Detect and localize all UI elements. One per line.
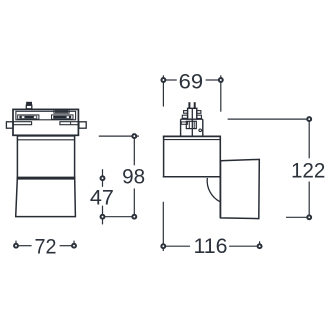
side view: adapter base: [181, 119, 203, 136]
front view: top-right dark block fill: [55, 110, 68, 113]
front view: knob legs: [26, 105, 32, 109]
side view: left upper nub: [184, 111, 188, 114]
side view: connector divider b: [193, 121, 195, 128]
dim 47: top circle: [101, 176, 105, 180]
front view: left horizontal bar: [13, 122, 31, 125]
side view: swivel arm arc: [207, 178, 220, 202]
side view: left track pin: [188, 102, 190, 108]
front view: right bar divider: [70, 122, 72, 125]
dim 47: stub below bottom circle: [102, 219, 104, 225]
dim 116: line right segment: [229, 245, 257, 247]
dim 69: line left segment: [165, 79, 176, 81]
side view: connector box: [186, 121, 196, 128]
dim 98: upper line segment: [133, 138, 135, 165]
side view: lamp head: [221, 159, 260, 218]
front view: lower head trapezoid: [16, 179, 76, 217]
dim 116: left terminator circle: [161, 244, 165, 248]
dim 98: top reference line: [99, 135, 132, 137]
dim 72: left terminator circle: [14, 244, 18, 248]
front view: adapter outer box: [13, 109, 78, 135]
side view: connector divider a: [188, 121, 190, 128]
dim 122: bottom reference stub: [286, 216, 307, 218]
side view: base inner bar: [181, 122, 187, 124]
dim 122: bottom circle: [307, 215, 311, 219]
dim 116: right terminator circle: [258, 244, 262, 248]
dim 98: top stub right: [136, 135, 139, 137]
dim 98: bottom circle: [132, 215, 136, 219]
front view: left slot white notch a: [22, 116, 25, 118]
front view: knob cap: [27, 102, 32, 105]
dim 69: right terminator circle: [219, 78, 223, 82]
front view: left contact slot outline: [18, 115, 39, 119]
side view: adapter column: [188, 108, 197, 119]
front view: right contact slot outline: [52, 115, 74, 119]
side view: body left edge: [163, 136, 165, 177]
dim 69: right witness line: [220, 82, 222, 112]
dim 47: bottom circle: [101, 215, 105, 219]
front view: right contact slot dark bar: [53, 116, 71, 119]
dim 122: upper line segment: [308, 121, 310, 158]
dim 116: stub below left circle: [162, 248, 164, 251]
front view: adapter inner face: [16, 111, 76, 120]
svg-text:98: 98: [122, 166, 145, 189]
svg-text:122: 122: [291, 159, 326, 182]
front view: right slot white notch: [67, 116, 69, 118]
side view: left lower nub: [182, 115, 187, 118]
dim 47: upper line segment: [102, 180, 104, 187]
dim 72: right tick above: [73, 241, 75, 244]
svg-text:72: 72: [35, 235, 57, 258]
side view: right lower nub: [197, 115, 202, 118]
side view: column center line: [191, 108, 193, 136]
dim 98: lower line segment: [133, 189, 135, 215]
dim bottom connector line 47-98: [105, 216, 133, 218]
side view: body top thick edge: [163, 135, 221, 137]
dim 116: line left segment: [165, 245, 190, 247]
side view: right track pin: [194, 102, 196, 108]
dim 69: line right segment: [206, 79, 219, 81]
dim 47: lower line segment: [102, 206, 104, 215]
front view: left contact slot dark bar: [19, 116, 37, 119]
front view: right side tab: [79, 122, 86, 128]
dim 72: line left segment: [18, 245, 32, 247]
side view: body seam line: [164, 139, 221, 141]
side view: base screw dot: [199, 129, 202, 132]
front view: body upper seam line: [17, 139, 74, 141]
dim 116: left witness line: [162, 202, 164, 244]
dim 122: lower line segment: [308, 182, 310, 216]
dim 116: tick above right circle: [259, 241, 261, 244]
side view: right upper nub: [197, 111, 201, 114]
front view: right horizontal bar: [60, 122, 78, 125]
side view: body right edge down to head bottom: [219, 136, 221, 218]
dim 72: right terminator circle: [72, 244, 76, 248]
dim 47: tick above top circle: [102, 169, 104, 176]
dim 69: right tick above: [220, 75, 222, 78]
dim 122: top reference line: [228, 118, 308, 120]
dim 69: left terminator circle: [161, 78, 165, 82]
front view: body mid thick seam: [17, 177, 76, 179]
dim 72: left tick above: [15, 241, 17, 244]
svg-text:69: 69: [179, 71, 204, 94]
front view: left slot white notch b: [34, 116, 36, 118]
dim 69: left tick above: [162, 75, 164, 78]
front view: left side tab: [6, 122, 13, 128]
side view: body bottom edge: [163, 176, 221, 178]
front view: body upper rectangle: [17, 136, 74, 178]
dim 69: left witness line: [162, 82, 164, 106]
front view: top-right dark block outline: [54, 109, 69, 113]
dim 72: line right segment: [60, 245, 72, 247]
svg-text:47: 47: [90, 186, 114, 209]
dim 98: top circle: [132, 134, 136, 138]
dim 122: top circle: [307, 117, 311, 121]
svg-text:116: 116: [194, 235, 228, 258]
